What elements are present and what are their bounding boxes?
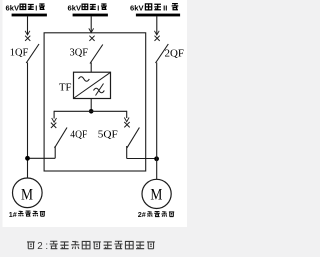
junction node below TF [89,109,94,114]
breaker contact x (4QF) [51,123,56,128]
sine symbol with slash (output, variable freq) [94,88,105,93]
disconnector blade 1QF [26,44,39,63]
svg-text:6kV: 6kV [6,4,20,13]
page background [0,0,187,257]
arrow into 4QF cubicle [52,118,57,122]
disconnector blade 5QF [127,128,139,149]
motor M1 circle [12,178,42,208]
motor M2 circle [142,179,171,208]
frequency converter box U1 [74,72,111,98]
wire: 1QF down to motor 1 node [27,63,29,179]
breaker contact x (1QF) [25,36,30,41]
bus bar 6kV section II (right) [136,14,180,17]
arrow into enclosure (3QF feed) [89,28,94,32]
wire: 3QF to transformer TF [90,63,92,73]
svg-text:6kV: 6kV [68,4,82,13]
wire: bus II to 2QF [156,16,158,34]
wire: TF to VFD output node [90,99,92,112]
breaker contact x (2QF) [155,36,160,41]
VFD cabinet enclosure [44,33,146,171]
wire: bus I(mid) to enclosure [90,16,92,31]
junction node above motor 1 [25,156,30,161]
bus bar 6kV section I (middle) [73,14,108,17]
svg-text:3QF: 3QF [70,46,89,58]
svg-text:I: I [97,3,99,12]
svg-text:1#: 1# [9,210,17,219]
wire: bus I to 1QF [27,16,29,34]
converter diagonal [74,73,110,98]
junction node above motor 2 [154,156,159,161]
wire: output bus down to 5QF [126,111,128,118]
breaker contact x (3QF) [89,36,94,41]
svg-text:5QF: 5QF [98,129,118,141]
wire: output bus down to 4QF [53,111,55,119]
svg-text:2#: 2# [138,210,146,219]
disconnector blade 4QF [55,128,68,149]
arrow into 2QF cubicle [154,31,159,35]
disconnector blade 2QF [156,44,169,63]
sine symbol (input, fixed freq) [79,77,90,82]
svg-text:6kV: 6kV [130,4,144,13]
svg-text:2QF: 2QF [165,47,185,59]
arrow into 5QF cubicle [124,118,129,122]
svg-text:TF: TF [59,81,72,93]
svg-text:1QF: 1QF [10,46,29,58]
arrow into 1QF cubicle [25,31,30,35]
wire: motor1 node to 4QF [27,157,55,159]
disconnector blade 3QF [90,45,103,64]
wire: 5QF down then to motor2 node [126,146,128,159]
wire: 2QF down to motor 2 node [156,63,158,180]
svg-text:2 :: 2 : [37,241,48,252]
svg-text:M: M [21,186,33,203]
svg-text:II: II [163,3,167,12]
svg-text:I: I [35,3,37,12]
caption: Fig.2 HV VFD working principle [27,242,35,249]
VFD output bus wire [54,110,127,112]
wire: 4QF to motor1 line [54,146,56,158]
bus bar 6kV section I (left) [12,14,47,17]
breaker contact x (5QF) [124,122,129,127]
svg-text:M: M [150,187,162,204]
svg-text:4QF: 4QF [70,129,87,141]
